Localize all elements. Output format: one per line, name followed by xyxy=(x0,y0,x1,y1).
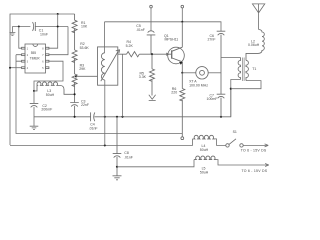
resistor R3 xyxy=(72,74,77,103)
wire S1 to arrow xyxy=(243,144,268,146)
capacitor C4 series xyxy=(91,112,95,121)
label R1 value xyxy=(81,21,88,29)
label 555 pin numbers xyxy=(27,48,45,70)
wire base riser xyxy=(122,54,124,117)
svg-text:5.2K: 5.2K xyxy=(126,44,134,48)
resistor R4 xyxy=(127,52,140,57)
antenna xyxy=(252,4,264,30)
svg-text:100.00 MHz: 100.00 MHz xyxy=(189,83,208,87)
resistor R5 xyxy=(150,54,155,95)
label R3 value xyxy=(79,63,86,71)
label L4 value xyxy=(200,144,209,152)
label L2 value xyxy=(248,39,260,47)
svg-text:555: 555 xyxy=(31,51,37,55)
svg-text:2: 2 xyxy=(27,55,29,57)
svg-text:200mF: 200mF xyxy=(41,108,52,112)
label L3 value xyxy=(46,89,55,97)
wire pin1 to C1 junction xyxy=(19,27,22,49)
svg-text:8: 8 xyxy=(42,48,44,50)
svg-text:29K: 29K xyxy=(79,67,86,71)
wire XT right lead xyxy=(208,72,221,74)
capacitor C2 xyxy=(30,103,39,107)
svg-text:TO 6 - 15V DS: TO 6 - 15V DS xyxy=(242,169,268,173)
svg-text:27nF: 27nF xyxy=(208,38,216,42)
svg-text:MPSH11: MPSH11 xyxy=(165,38,179,42)
capacitor C7 xyxy=(217,94,226,117)
node T1 bottom junction xyxy=(230,88,232,90)
node L1 busD junction xyxy=(104,144,106,146)
switch S1 xyxy=(226,139,243,147)
capacitor C5 xyxy=(147,31,156,54)
node pin4 junction xyxy=(9,67,11,69)
svg-text:.01nF: .01nF xyxy=(124,156,133,160)
svg-text:100mF: 100mF xyxy=(207,97,218,101)
inductor L4 xyxy=(193,135,216,139)
terminal input 1 xyxy=(150,5,153,31)
label Q1 xyxy=(164,34,178,42)
node C5 base junction xyxy=(151,53,153,55)
wire R3 tap to L1 bottom xyxy=(76,75,98,77)
capacitor C8 xyxy=(113,117,122,176)
svg-text:5: 5 xyxy=(42,68,44,70)
wire base node xyxy=(118,53,166,55)
wire top-left rail and left frame xyxy=(10,14,75,145)
svg-text:.01nF: .01nF xyxy=(136,28,145,32)
label C2 value xyxy=(41,104,52,112)
svg-text:6: 6 xyxy=(42,61,44,63)
crystal XT xyxy=(196,67,208,79)
arrow L5 supply xyxy=(265,164,269,167)
wire T1 left bottom to busA xyxy=(231,80,241,117)
svg-text:50uH: 50uH xyxy=(46,93,55,97)
wire C1 to pin8 riser xyxy=(35,14,68,48)
svg-text:.01nF: .01nF xyxy=(89,127,98,131)
wire L5 feed xyxy=(117,160,194,167)
svg-text:10nF: 10nF xyxy=(40,32,48,36)
label C1 value xyxy=(39,28,48,36)
svg-text:S1: S1 xyxy=(233,130,237,134)
node R3 L3 junction xyxy=(74,93,76,95)
resistor R6 xyxy=(180,73,185,137)
wire bus A xyxy=(34,89,231,117)
svg-text:22nF: 22nF xyxy=(81,103,89,107)
wire T1 right bottom loop xyxy=(231,81,261,89)
svg-text:TIMER: TIMER xyxy=(30,57,41,61)
wire rail top right xyxy=(105,22,222,31)
node C1 wire junction xyxy=(57,26,59,28)
svg-text:T1: T1 xyxy=(252,67,256,71)
ground C1 ground xyxy=(9,27,15,36)
label R5 value xyxy=(139,71,147,79)
ground R5 arrow ground xyxy=(149,95,156,101)
arrow L4 supply xyxy=(265,144,269,147)
label R4 value xyxy=(126,40,134,48)
wire pins 2-3 bracket to bus C xyxy=(16,55,182,134)
inductor L5 xyxy=(194,156,217,160)
terminal input 2 xyxy=(181,5,184,22)
capacitor C1 xyxy=(33,22,36,31)
wire pin4 to left rail xyxy=(10,67,22,69)
transistor Q1 xyxy=(166,22,184,73)
transformer T1 xyxy=(238,58,248,82)
label 555 TIMER xyxy=(30,51,41,60)
resistor R1 xyxy=(72,14,77,50)
label XT xyxy=(189,80,208,88)
label C4 value xyxy=(89,123,98,131)
svg-text:3.3K: 3.3K xyxy=(139,75,147,79)
node base riser bus junction xyxy=(121,116,123,118)
node C8 bus junction xyxy=(116,116,118,118)
label C7 value xyxy=(207,93,218,101)
wire pin7 bracket xyxy=(49,27,68,55)
node L3 C2 junction xyxy=(33,90,35,92)
ground C2 ground xyxy=(30,107,39,130)
inductor L2 xyxy=(246,30,264,61)
label C6 value xyxy=(208,34,216,42)
svg-text:0.06uH: 0.06uH xyxy=(248,43,260,47)
svg-text:50uH: 50uH xyxy=(200,148,209,152)
node L1 bus junction xyxy=(104,116,106,118)
node C1 bracket junction xyxy=(18,26,20,28)
IC U1 555 timer body xyxy=(22,44,49,73)
svg-text:4: 4 xyxy=(27,68,29,70)
svg-text:1: 1 xyxy=(27,48,29,50)
capacitor C6 xyxy=(217,31,241,94)
svg-text:7: 7 xyxy=(42,55,44,57)
inductor L3 xyxy=(34,82,75,94)
node R3 top junction xyxy=(75,75,77,77)
label C3 value xyxy=(81,99,89,107)
node top rail junction xyxy=(57,13,59,15)
inductor L1 variable with shield box xyxy=(98,22,120,146)
svg-text:TO 6 - 15V DS: TO 6 - 15V DS xyxy=(241,149,267,153)
wire bus D xyxy=(10,139,193,146)
svg-text:3: 3 xyxy=(27,61,29,63)
svg-text:50uH: 50uH xyxy=(200,171,209,175)
wire C1 left xyxy=(12,26,30,28)
svg-text:10K: 10K xyxy=(81,25,88,29)
node C3 bus junction xyxy=(74,116,76,118)
wire pin6 loop xyxy=(34,61,63,103)
label R6 value xyxy=(171,87,177,95)
label L5 value xyxy=(200,167,209,175)
node emitter XT junction xyxy=(181,72,183,74)
ground C8 ground xyxy=(113,176,122,180)
label R2 value xyxy=(80,42,90,50)
node C8 L5 junction xyxy=(116,166,118,168)
wire L5 to arrow xyxy=(217,160,269,165)
label C5 value xyxy=(136,24,145,32)
resistor R2 xyxy=(72,50,77,74)
node collector rail junction xyxy=(181,21,183,23)
wire XT left lead xyxy=(182,72,196,74)
label C8 value xyxy=(124,151,133,159)
capacitor C3 xyxy=(70,103,79,117)
svg-text:220: 220 xyxy=(171,91,177,95)
wire L4 to switch xyxy=(215,139,226,146)
svg-text:53.6K: 53.6K xyxy=(80,46,90,50)
node C7 bus junction xyxy=(220,116,222,118)
terminal emitter out xyxy=(181,137,184,140)
